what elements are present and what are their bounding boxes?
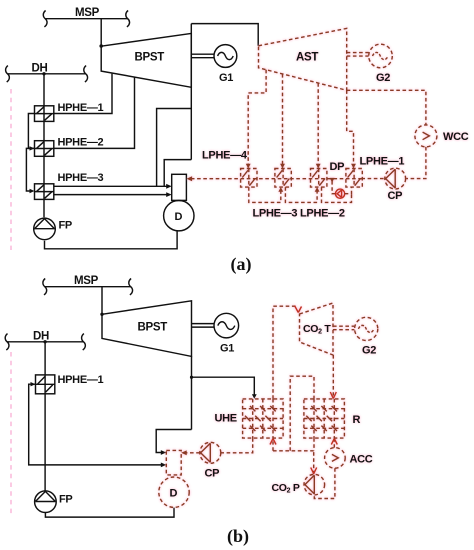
shaft BPST-G1 (a) — [191, 54, 214, 58]
pump DP — [336, 189, 345, 198]
condenser WCC — [415, 125, 437, 147]
arrow into deaerator lower (a) — [166, 192, 172, 197]
wire UHE to CO2T inlet — [273, 306, 298, 399]
wire extraction 2 to HPHE-2 (a) — [54, 77, 135, 148]
wire feed line to deaerator (b) — [45, 464, 163, 466]
arrow into CO2P top — [311, 468, 317, 474]
heat exchanger UHE — [243, 399, 284, 438]
svg-text:DH: DH — [33, 331, 49, 343]
wire DH riser (a) — [43, 74, 45, 217]
arrow into LPHE-4 top — [246, 164, 251, 169]
wire HPHE-1 drain to HPHE-2 (a) — [28, 114, 34, 149]
arrow into LPHE-1 top — [351, 164, 356, 169]
heat exchanger HPHE-2 (a) — [35, 141, 54, 157]
arrow into R bottom — [331, 439, 337, 445]
arrow DP junction on main line — [330, 178, 335, 183]
wire AST extraction to LPHE-2 — [317, 83, 319, 166]
wire steam to UHE (b) — [192, 377, 255, 396]
wire DP branch from main line — [332, 181, 336, 194]
arrow steam into UHE top — [252, 394, 257, 399]
wire extraction 1 to HPHE-1 (a) — [54, 74, 112, 114]
heat exchanger LPHE-3 — [275, 169, 291, 188]
arrow into LPHE-3 bottom — [278, 187, 283, 192]
turbine CO2 T — [300, 303, 334, 355]
wire AST extraction to LPHE-4 — [248, 70, 266, 166]
arrow into LPHE-2 top — [316, 164, 321, 169]
wire drain cascade LPHE-2 to DP branch — [322, 187, 352, 202]
svg-text:HPHE—1: HPHE—1 — [58, 374, 104, 386]
wire HPHE-3 upper line to deaerator (a) — [54, 185, 169, 187]
wire exhaust pipe lower to deaerator (a) — [164, 160, 191, 187]
wire DH return ghost line (a) — [10, 89, 12, 250]
wire R cold outlet over-bridge — [290, 376, 314, 451]
wire CO2T exhaust to R — [332, 355, 334, 396]
wire DP outlet to LPHE-1 bottom — [345, 187, 352, 194]
deaerator D (b) — [159, 477, 189, 507]
arrow into HPHE-2 (a) — [30, 146, 35, 150]
wire UHE condensate to CP — [221, 438, 253, 453]
shaft AST-G2 (a) — [347, 53, 369, 57]
deaerator D (a) — [164, 201, 194, 231]
heat exchanger R — [304, 399, 345, 438]
generator G1 (b) — [214, 313, 239, 338]
wire FP to D bottom loop (b) — [45, 508, 174, 517]
svg-text:LPHE—4: LPHE—4 — [202, 150, 248, 162]
turbine BPST (b) — [102, 301, 192, 357]
arrow condensate into deaerator tank — [187, 176, 193, 181]
svg-text:CO2 T: CO2 T — [303, 323, 331, 336]
svg-text:CP: CP — [205, 468, 220, 480]
svg-text:LPHE—3: LPHE—3 — [253, 208, 298, 220]
svg-text:LPHE—1: LPHE—1 — [360, 156, 405, 168]
deaerator tank (b) — [166, 450, 181, 475]
wire drain cascade LPHE-3 to LPHE-2 — [285, 187, 317, 202]
arrow into deaerator right (b) — [181, 450, 187, 455]
svg-text:CP: CP — [388, 190, 403, 202]
svg-text:D: D — [175, 211, 183, 223]
wire DH riser (b) — [44, 342, 46, 491]
svg-text:MSP: MSP — [74, 275, 99, 287]
svg-text:UHE: UHE — [215, 413, 237, 425]
wire CP to LPHE-1 — [362, 178, 384, 180]
arrow into LPHE-2 bottom — [315, 187, 320, 192]
heat exchanger HPHE-1 (b) — [36, 375, 55, 394]
heat exchanger HPHE-1 (a) — [35, 106, 54, 122]
heat exchanger LPHE-2 — [311, 169, 327, 188]
wire exhaust to deaerator (b) — [156, 430, 191, 453]
heat exchanger LPHE-4 — [241, 169, 257, 188]
svg-text:LPHE—2: LPHE—2 — [300, 208, 345, 220]
wire BPST to AST crossover (a) — [191, 24, 258, 46]
arrow into CO2T inlet — [295, 306, 302, 313]
svg-text:(a): (a) — [231, 254, 252, 275]
wire MSP to BPST (a) — [100, 19, 102, 47]
svg-text:MSP: MSP — [75, 7, 100, 19]
svg-text:G1: G1 — [220, 343, 234, 355]
arrow into deaerator upper (a) — [166, 184, 172, 189]
wire HPHE-2 drain to HPHE-3 (a) — [26, 148, 34, 191]
svg-text:CO2 P: CO2 P — [272, 482, 300, 495]
generator G2 (b) — [355, 317, 378, 340]
wire exhaust pipe upper to deaerator (a) — [157, 109, 192, 187]
pump CO2 P — [304, 474, 325, 495]
svg-text:G2: G2 — [362, 345, 376, 357]
svg-text:AST: AST — [296, 52, 318, 64]
svg-text:G1: G1 — [219, 72, 233, 84]
wire ACC to CO2P — [314, 468, 335, 498]
heat exchanger LPHE-1 — [346, 169, 362, 188]
deaerator tank (a) — [172, 174, 187, 200]
arrow into deaerator lower (b) — [161, 463, 167, 468]
svg-text:HPHE—3: HPHE—3 — [58, 172, 104, 184]
svg-text:D: D — [170, 488, 178, 500]
cooler ACC — [325, 448, 346, 469]
svg-text:FP: FP — [59, 494, 72, 506]
wire HPHE-3 lower line to deaerator (a) — [54, 194, 169, 196]
svg-text:DP: DP — [330, 161, 345, 173]
svg-text:R: R — [353, 414, 361, 426]
DH line (b) — [5, 334, 85, 350]
arrow into UHE bottom — [270, 439, 276, 445]
node DH junction (b) — [43, 340, 46, 343]
pump FP (a) — [34, 218, 56, 240]
wire CO2 return header — [273, 450, 314, 452]
wire AST exhaust to WCC — [347, 90, 426, 125]
arrow into deaerator upper (b) — [161, 450, 167, 455]
node DH junction (a) — [42, 72, 45, 75]
wire AST extraction to LPHE-1 — [347, 90, 354, 166]
svg-text:BPST: BPST — [135, 52, 165, 64]
svg-text:FP: FP — [59, 220, 72, 232]
wire DH return ghost line (b) — [10, 352, 12, 516]
arrow into LPHE-3 top — [280, 164, 285, 169]
wire FP suction bottom line to D (a) — [45, 231, 178, 249]
wire R bottom cold stub — [313, 438, 315, 451]
pump FP (b) — [35, 491, 57, 513]
pump CP (a) — [385, 168, 406, 189]
svg-text:BPST: BPST — [138, 322, 168, 334]
wire main condensate line — [191, 178, 362, 180]
turbine AST — [259, 28, 347, 90]
svg-text:WCC: WCC — [443, 131, 469, 143]
svg-text:(b): (b) — [227, 526, 249, 547]
wire BPST exhaust vertical (a) — [190, 24, 192, 160]
MSP line (a) — [43, 11, 129, 27]
shaft CO2T-G2 (b) — [333, 326, 354, 330]
wire return to UHE bottom — [272, 442, 274, 451]
wire WCC to CP — [406, 147, 426, 179]
arrow into R top — [330, 392, 336, 399]
node MSP-BPST junction (b) — [100, 313, 103, 316]
svg-text:G2: G2 — [376, 72, 390, 84]
svg-text:HPHE—1: HPHE—1 — [58, 102, 104, 114]
wire BPST exhaust vertical (b) — [191, 356, 193, 429]
wire drain cascade LPHE-4 to LPHE-3 — [249, 187, 281, 202]
generator G2 (a) — [369, 44, 393, 68]
turbine BPST (a) — [101, 33, 191, 87]
pump CP (b) — [200, 442, 221, 463]
wire CP to deaerator (b) — [186, 452, 200, 454]
arrow at HPHE-1 (b) — [31, 382, 36, 386]
arrow into HPHE-3 (a) — [30, 189, 35, 193]
wire CO2P to R cold side — [313, 451, 315, 475]
node MSP-BPST junction (a) — [99, 44, 103, 48]
generator G1 (a) — [214, 45, 237, 68]
wire AST extraction to LPHE-3 — [282, 74, 284, 166]
heat exchanger HPHE-3 (a) — [35, 184, 54, 200]
DH line (a) — [6, 66, 88, 82]
svg-text:ACC: ACC — [350, 454, 373, 466]
wire R to ACC — [333, 438, 335, 448]
node exhaust tee (b) — [190, 376, 193, 379]
shaft BPST-G1 (b) — [192, 324, 214, 328]
svg-text:HPHE—2: HPHE—2 — [58, 137, 104, 149]
MSP line (b) — [43, 279, 133, 295]
wire HPHE-1 drain loop (b) — [29, 384, 45, 465]
wire MSP to BPST (b) — [101, 287, 103, 315]
